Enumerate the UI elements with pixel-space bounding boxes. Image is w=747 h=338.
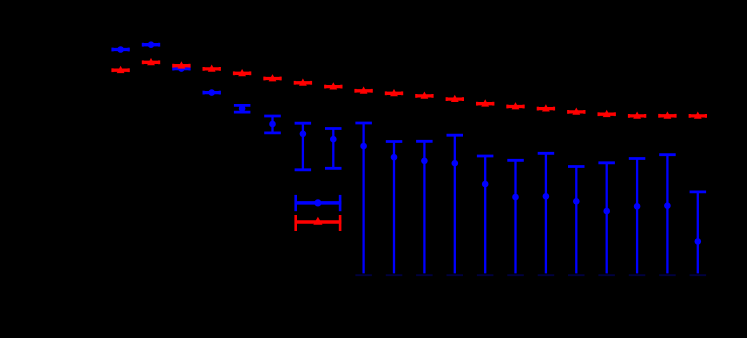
blue data point 19 [659, 155, 676, 276]
red data point 3 [173, 61, 189, 68]
blue data point 7 [295, 123, 312, 170]
red data point 14 [507, 102, 523, 109]
blue data point 13 [477, 156, 494, 275]
red data point 2 [143, 58, 159, 65]
blue data point 5 [234, 105, 251, 112]
red data point 17 [599, 110, 615, 117]
red data point 9 [356, 86, 372, 93]
blue data point 1 [113, 46, 129, 53]
red data point 10 [386, 89, 402, 96]
red data point 4 [204, 65, 220, 72]
blue data point 15 [538, 153, 555, 275]
blue data point 10 [386, 142, 403, 276]
red data point 13 [477, 99, 493, 106]
blue data point 2 [143, 41, 159, 48]
blue data point 8 [325, 129, 342, 169]
red data point 15 [538, 104, 554, 111]
red data point 6 [264, 74, 280, 81]
red data point 7 [295, 78, 311, 85]
red data point 5 [234, 69, 250, 76]
legend blue sample [295, 195, 342, 211]
blue data point 3 [173, 65, 189, 72]
blue data point 11 [416, 141, 433, 275]
blue data point 20 [690, 192, 707, 275]
red data point 8 [325, 82, 341, 89]
blue data point 12 [447, 135, 464, 275]
blue data point 17 [598, 163, 615, 275]
red data point 16 [568, 108, 584, 115]
red data point 18 [629, 112, 645, 119]
blue data point 4 [204, 89, 220, 96]
red data point 1 [113, 66, 129, 73]
blue data point 6 [264, 116, 281, 133]
blue data point 14 [507, 160, 524, 275]
red data point 19 [659, 111, 675, 118]
blue data point 18 [629, 159, 646, 276]
blue data point 9 [355, 123, 372, 275]
legend red sample [295, 215, 342, 231]
blue data point 16 [568, 167, 585, 276]
red data point 12 [447, 95, 463, 102]
red data point 20 [690, 112, 706, 119]
red data point 11 [416, 92, 432, 99]
